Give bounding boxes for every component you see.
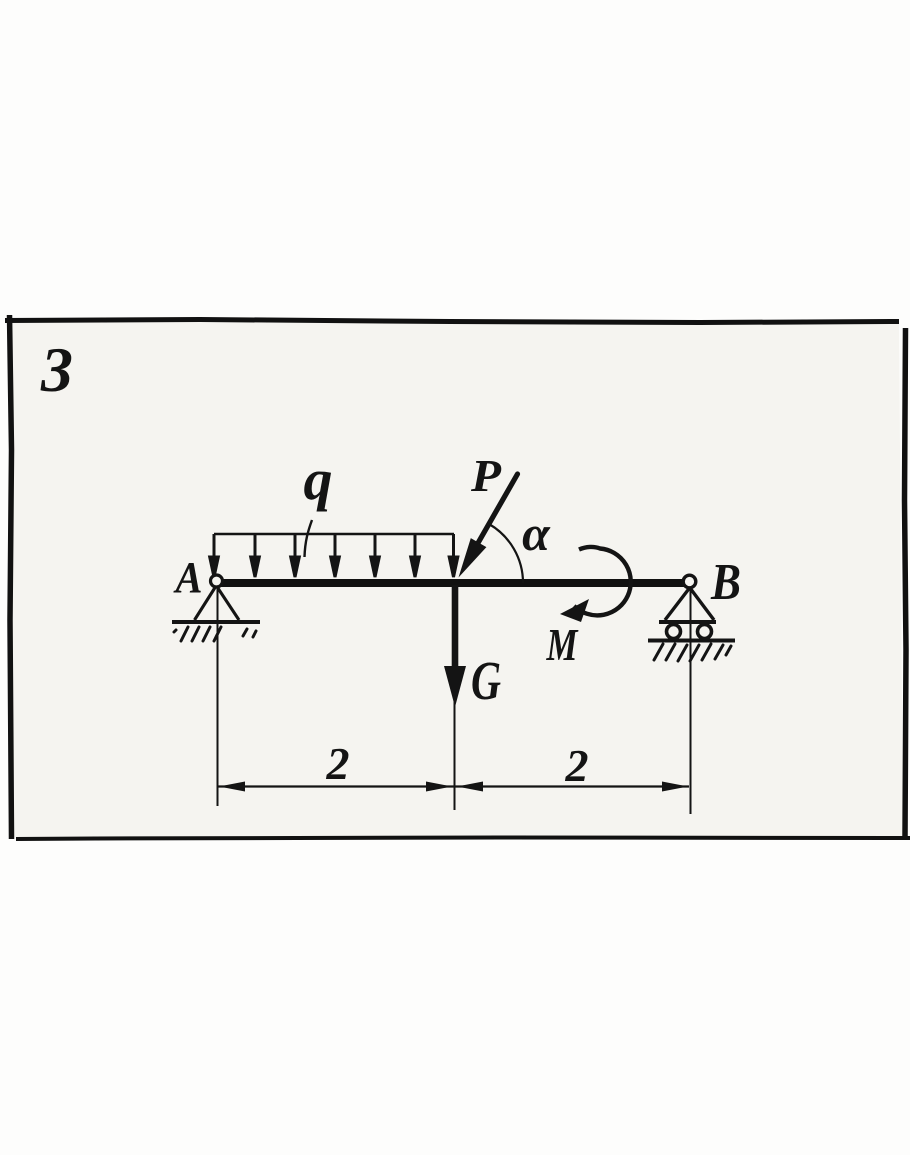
distributed load q: top line [214,533,454,536]
frame border bottom [16,838,910,840]
svg-text:P: P [470,450,502,501]
moment M arc [574,547,631,615]
dim arrow left of right span (tip at mid line) [457,782,483,792]
support B: pin circle [683,575,696,588]
force G: shaft [452,585,459,666]
wire: dimension extension line below A [217,589,219,806]
support A: ground line [172,620,260,624]
force G: arrowhead [444,666,466,707]
distributed load q: vertical lines with arrows [210,534,458,577]
figure background panel [10,321,903,837]
svg-text:B: B [710,554,741,611]
frame border top [5,320,899,323]
beam AB [213,579,691,587]
svg-text:q: q [304,447,333,512]
support A: triangle [195,586,240,620]
svg-text:α: α [522,505,551,561]
support B: ground line [648,639,735,643]
force P: arrowhead [459,538,487,577]
angle alpha arc [489,524,523,583]
support B: roller left [667,625,681,639]
svg-text:2: 2 [326,738,350,789]
force P: shaft [466,474,518,564]
svg-text:M: M [546,619,579,670]
support A: hatching [174,627,256,641]
support B: roller right [698,625,712,639]
dim arrow right of left span (tip at mid line) [426,782,452,792]
dim arrow right (tip at B line) [662,782,688,792]
support B: hatching [654,644,731,661]
wire: dimension extension line below B [690,589,692,814]
svg-text:2: 2 [565,740,589,791]
support A: pin circle [211,575,223,587]
dimension line [218,785,689,787]
leader line from q [305,520,313,557]
wire: dimension extension line below mid node [454,700,456,810]
svg-text:G: G [471,650,501,711]
support B: triangle [665,588,714,620]
svg-text:3: 3 [40,334,73,405]
frame border left [10,315,12,839]
svg-text:A: A [173,553,203,602]
frame border right [905,328,907,838]
dim arrow left (tip at A line) [219,782,245,792]
moment M arrowhead [560,599,589,622]
support B: triangle base line [659,620,716,624]
